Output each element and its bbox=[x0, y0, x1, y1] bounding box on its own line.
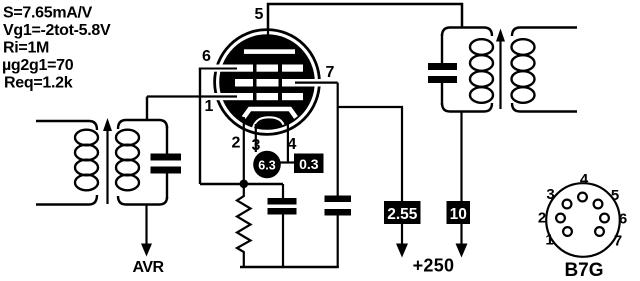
transformer T1 secondary winding bbox=[116, 120, 167, 205]
svg-text:S=7.65mA/V: S=7.65mA/V bbox=[3, 5, 93, 22]
svg-text:3: 3 bbox=[546, 186, 554, 203]
wire: T1 secondary top tap to grid pin1 bbox=[146, 97, 148, 121]
screen current label 2.55 bbox=[384, 201, 421, 224]
junction dot cathode node bbox=[240, 180, 249, 189]
anode current label 10 bbox=[447, 201, 471, 224]
svg-text:2: 2 bbox=[538, 210, 546, 227]
tuning capacitor C1 of T1 tank bbox=[151, 126, 182, 199]
wire: grid pin1 lead bbox=[147, 95, 237, 97]
svg-text:4: 4 bbox=[288, 136, 297, 153]
arrow to +250 (anode) bbox=[456, 244, 468, 258]
tube V1 envelope bbox=[215, 30, 320, 135]
svg-text:7: 7 bbox=[614, 233, 622, 250]
tube V1 electrode assembly (black disc) bbox=[219, 34, 315, 130]
T1 coupling arrow bbox=[103, 118, 112, 204]
B7G pin hole 4 bbox=[578, 193, 587, 202]
wire: bracket joining pin6 down to cathode node bbox=[199, 69, 201, 185]
grid g3 row with pin6 exit channel bbox=[211, 65, 303, 72]
wire: AVR feed from T1 secondary bottom bbox=[145, 205, 147, 247]
wire: 6.3 to 0.3 link bbox=[280, 161, 295, 163]
B7G pin hole 7 bbox=[595, 227, 604, 236]
B7G pin hole 1 bbox=[563, 227, 572, 236]
svg-text:5: 5 bbox=[611, 187, 619, 204]
wire: screen pin7 lead bbox=[295, 81, 338, 83]
arrow to +250 (screen) bbox=[396, 244, 408, 258]
transformer T1 primary winding bbox=[36, 121, 98, 205]
B7G pin hole 2 bbox=[556, 214, 565, 223]
spec text block bbox=[2, 5, 111, 92]
wire: anode pin5 to output transformer top rail bbox=[268, 4, 462, 28]
svg-text:Ri=1M: Ri=1M bbox=[3, 40, 49, 57]
svg-text:3: 3 bbox=[252, 137, 261, 154]
B7G pin hole 3 bbox=[563, 200, 572, 209]
wire: cathode net horizontal bbox=[200, 183, 283, 185]
svg-text:2: 2 bbox=[232, 135, 241, 152]
grid g1 row with pin1 exit channel bbox=[211, 93, 303, 100]
wire: pin6 stub bbox=[199, 68, 237, 70]
grid g2 row with pin7 exit channel bbox=[235, 79, 326, 87]
B7G pin hole 5 bbox=[594, 200, 603, 209]
B7G pin hole 6 bbox=[600, 214, 609, 223]
svg-text:Req=1.2k: Req=1.2k bbox=[4, 75, 73, 92]
svg-text:AVR: AVR bbox=[132, 259, 164, 276]
svg-text:Vg1=-2tot-5.8V: Vg1=-2tot-5.8V bbox=[3, 22, 111, 39]
wire: heater pin4 lead bbox=[287, 122, 289, 163]
transformer T2 secondary winding bbox=[512, 28, 578, 112]
AVR arrow bbox=[141, 244, 152, 257]
wire: cathode pin2 lead bbox=[243, 117, 245, 184]
T2 coupling arrow bbox=[496, 29, 505, 110]
B7G pin labels bbox=[538, 171, 627, 250]
wire: pin5 anode lead bbox=[267, 28, 269, 44]
svg-text:B7G: B7G bbox=[564, 260, 603, 281]
svg-text:4: 4 bbox=[580, 171, 589, 188]
heater voltage label 6.3 bbox=[253, 151, 281, 179]
svg-text:+250: +250 bbox=[413, 256, 455, 276]
wire: screen feed branch to 2.55 bbox=[338, 107, 402, 201]
wire: heater pin3 lead bbox=[255, 124, 257, 152]
wire: 10 down lead bbox=[460, 224, 462, 246]
wire: 2.55 down lead bbox=[401, 224, 403, 246]
heater current label 0.3 bbox=[294, 154, 324, 174]
svg-text:6: 6 bbox=[202, 48, 211, 65]
B7G base outline bbox=[546, 183, 620, 257]
tuning capacitor C2 of T2 tank bbox=[428, 34, 457, 105]
svg-text:2.55: 2.55 bbox=[387, 206, 418, 223]
wire: ground bus bottom bbox=[240, 266, 339, 269]
svg-text:7: 7 bbox=[326, 64, 335, 81]
svg-text:10: 10 bbox=[450, 206, 467, 223]
svg-text:6.3: 6.3 bbox=[258, 159, 275, 173]
svg-text:1: 1 bbox=[545, 232, 553, 249]
wire: anode feed to 10 bbox=[460, 112, 462, 202]
screen bypass capacitor Cg2 bbox=[325, 83, 352, 267]
svg-text:µg2g1=70: µg2g1=70 bbox=[2, 57, 74, 74]
cathode bypass capacitor Ck bbox=[268, 184, 297, 267]
svg-text:6: 6 bbox=[619, 211, 627, 228]
cathode resistor Rk bbox=[237, 188, 251, 267]
svg-text:1: 1 bbox=[205, 98, 214, 115]
svg-text:5: 5 bbox=[255, 6, 264, 23]
transformer T2 primary winding bbox=[442, 28, 493, 112]
heater filament arc bbox=[253, 117, 284, 128]
svg-text:0.3: 0.3 bbox=[299, 156, 319, 172]
anode plate bar bbox=[244, 49, 295, 54]
cathode hat bbox=[244, 109, 296, 118]
